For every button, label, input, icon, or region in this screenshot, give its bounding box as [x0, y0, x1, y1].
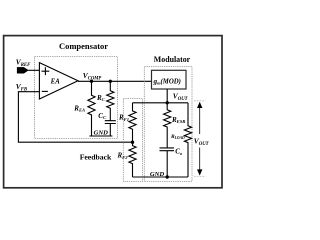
VOUT dimension top tick: [194, 100, 206, 102]
svg-text:Modulator: Modulator: [154, 55, 191, 64]
svg-text:GND: GND: [150, 171, 165, 178]
node dot Co ground: [166, 175, 169, 178]
op-amp plus input sign: [42, 67, 50, 75]
VOUT dimension arrow line: [199, 104, 201, 134]
node dot feedback midpoint: [131, 141, 134, 144]
compensator dashed box: [35, 57, 118, 139]
svg-text:GND: GND: [94, 130, 109, 137]
VOUT dimension bottom tick: [194, 176, 206, 178]
wire EA output to modulator: [78, 80, 152, 82]
outer border frame: [4, 36, 222, 188]
wire gm block to VOUT node: [166, 89, 168, 103]
svg-text:Feedback: Feedback: [80, 153, 112, 162]
op-amp EA: [39, 63, 78, 99]
ground rail compensator: [89, 135, 112, 137]
VREF input pad: [17, 67, 28, 73]
svg-text:EA: EA: [50, 78, 61, 85]
node dot at RC branch: [109, 80, 112, 83]
modulator dashed box: [144, 67, 192, 182]
svg-text:Compensator: Compensator: [59, 41, 108, 51]
resistor RESR: [164, 103, 171, 148]
resistor REA: [88, 81, 95, 136]
op-amp minus input sign: [42, 90, 48, 92]
bottom rail wire: [133, 176, 189, 178]
resistor RLOAD: [184, 103, 191, 177]
arrowhead up: [197, 102, 202, 108]
top rail wire: [133, 102, 189, 104]
resistor RF2: [129, 142, 136, 177]
svg-text:gm(MOD): gm(MOD): [153, 77, 181, 85]
resistor RF1: [129, 103, 136, 142]
wire VFB to -input: [18, 92, 132, 143]
wire VREF to +input: [28, 69, 39, 71]
resistor RC: [107, 81, 114, 120]
modulator gm block U1: [152, 70, 187, 89]
capacitor Co: [160, 148, 175, 151]
node dot at REA branch: [90, 80, 93, 83]
arrowhead down: [197, 169, 202, 175]
node dot VOUT: [166, 101, 169, 104]
feedback dashed box: [123, 99, 142, 182]
capacitor CC: [105, 121, 116, 124]
